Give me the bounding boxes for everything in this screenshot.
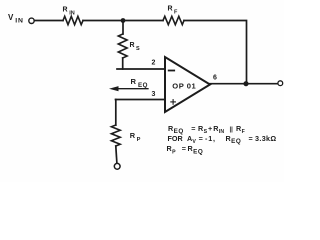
- svg-text:F: F: [242, 129, 245, 135]
- resistor RF: [163, 16, 184, 24]
- svg-text:R: R: [130, 42, 135, 49]
- wire node A to R_F: [123, 20, 163, 22]
- svg-text:=: =: [191, 124, 195, 133]
- label RP: [130, 131, 141, 143]
- svg-text:P: P: [137, 137, 141, 143]
- svg-text:2: 2: [152, 59, 156, 66]
- svg-text:OP 01: OP 01: [172, 81, 196, 90]
- svg-text:-1,: -1,: [205, 134, 216, 143]
- svg-text:3: 3: [152, 91, 156, 98]
- output terminal: [278, 81, 283, 86]
- svg-text:6: 6: [213, 75, 217, 82]
- label RIN: [63, 7, 75, 17]
- svg-text:IN: IN: [219, 129, 224, 135]
- svg-text:IN: IN: [69, 10, 75, 16]
- svg-text:R: R: [168, 6, 173, 13]
- wire R_P to ground terminal: [116, 146, 117, 163]
- svg-text:3.3kΩ: 3.3kΩ: [255, 134, 277, 143]
- svg-text:EQ: EQ: [138, 82, 148, 89]
- node A junction: [121, 18, 126, 23]
- ground terminal: [114, 163, 120, 169]
- svg-text:R: R: [130, 131, 136, 140]
- svg-text:S: S: [136, 46, 140, 52]
- pin 2 label: [152, 59, 156, 66]
- pin 6 label: [213, 75, 217, 82]
- resistor RS: [118, 34, 127, 58]
- svg-text:=: =: [182, 144, 186, 153]
- output junction: [243, 81, 248, 86]
- svg-text:P: P: [172, 149, 176, 155]
- wire inverting input pin 2: [117, 68, 165, 70]
- svg-text:FOR: FOR: [168, 134, 184, 143]
- wire non-inverting input pin 3: [116, 99, 166, 101]
- resistor RIN: [63, 16, 83, 24]
- svg-text:+: +: [208, 124, 212, 133]
- svg-text:R: R: [131, 77, 137, 86]
- svg-text:||: ||: [230, 127, 234, 133]
- svg-text:EQ: EQ: [231, 138, 241, 145]
- wire output: [210, 83, 278, 85]
- wire R_IN to node A: [83, 20, 123, 22]
- label RS: [130, 42, 141, 52]
- svg-text:F: F: [174, 9, 178, 15]
- svg-text:IN: IN: [15, 17, 24, 24]
- equation line 3: RP = REQ: [167, 144, 204, 155]
- svg-text:V: V: [8, 13, 14, 22]
- REQ arrow pointing left: [109, 86, 148, 91]
- wire input to R_IN: [34, 20, 63, 22]
- wire R_S to pin 2 line: [122, 58, 124, 69]
- svg-text:V: V: [192, 139, 196, 145]
- svg-text:=: =: [199, 134, 203, 143]
- input terminal: [29, 18, 34, 23]
- op-amp U1 OP 01: [165, 57, 210, 112]
- equation line 2: FOR AV = -1, REQ = 3.3k: [168, 134, 277, 145]
- svg-text:EQ: EQ: [193, 148, 203, 155]
- wire node A down to R_S: [122, 21, 124, 35]
- equation line 1: REQ = RS + RIN parallel RF: [168, 124, 245, 135]
- pin 3 label: [152, 91, 156, 98]
- label VIN: [8, 13, 24, 25]
- wire R_F to right corner: [184, 21, 247, 84]
- resistor RP: [111, 125, 120, 146]
- wire pin 3 down to R_P: [115, 100, 117, 126]
- svg-text:=: =: [249, 134, 253, 143]
- svg-text:R: R: [63, 7, 68, 14]
- label REQ: [131, 77, 148, 89]
- label RF: [168, 6, 179, 16]
